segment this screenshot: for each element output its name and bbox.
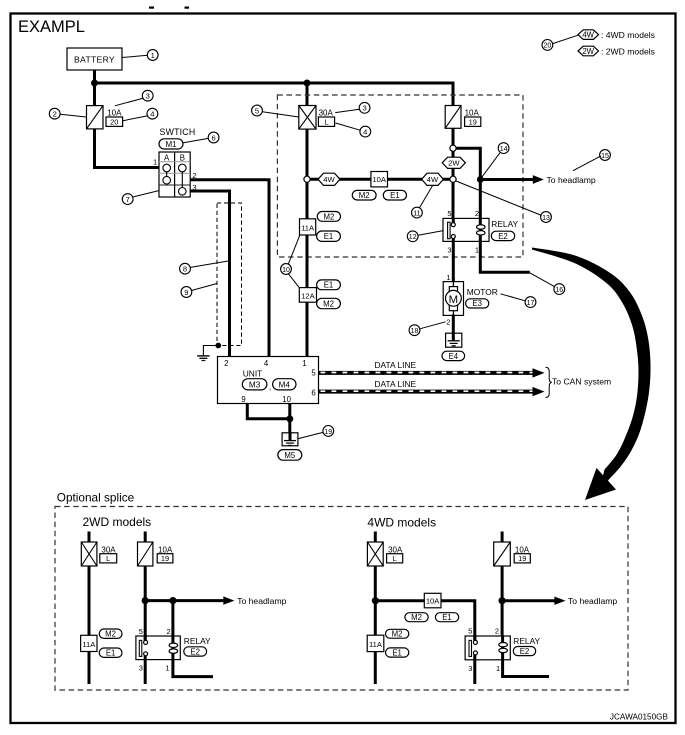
- wire main bus: [95, 83, 454, 107]
- value 30A / connector L: [318, 108, 334, 126]
- svg-text:To CAN system: To CAN system: [552, 377, 611, 387]
- relay K 2wd: [136, 627, 211, 673]
- motor M: [443, 282, 498, 316]
- svg-text:10A: 10A: [158, 545, 173, 554]
- svg-text:1: 1: [475, 246, 479, 255]
- fuse 4wd 10A: [494, 542, 511, 566]
- svg-text:Optional splice: Optional splice: [57, 491, 135, 505]
- wire F1 to switch pin1: [95, 129, 160, 168]
- callout 20: [542, 35, 578, 50]
- svg-text:RELAY: RELAY: [491, 219, 518, 229]
- legend 2W hexagon: [578, 46, 655, 56]
- svg-text:E1: E1: [392, 648, 402, 657]
- svg-text:M2: M2: [323, 212, 334, 221]
- svg-text:11A: 11A: [301, 223, 315, 232]
- svg-text:1: 1: [302, 359, 306, 368]
- connector 10A mid: [371, 172, 388, 187]
- callout 18: [409, 322, 446, 336]
- svg-text:4W: 4W: [323, 175, 335, 184]
- svg-text:10A: 10A: [465, 108, 480, 117]
- svg-text:UNIT: UNIT: [243, 368, 263, 378]
- shield around unit pin2 wire: [217, 203, 242, 346]
- svg-text:2: 2: [167, 627, 171, 636]
- svg-text:M2: M2: [392, 630, 403, 639]
- wire motor pin2 to ground: [452, 315, 455, 341]
- svg-text:8: 8: [183, 265, 187, 274]
- svg-text:To headlamp: To headlamp: [547, 175, 596, 185]
- value 10A / connector 20: [106, 108, 123, 126]
- callout 14: [482, 143, 509, 178]
- junction bus/30A branch: [304, 80, 311, 87]
- wire headlamp 4wd: [502, 596, 617, 606]
- svg-text:RELAY: RELAY: [513, 636, 540, 646]
- svg-text:10A: 10A: [107, 108, 122, 117]
- wire F2 down to unit pin1: [306, 129, 309, 176]
- tag E1: [317, 231, 341, 241]
- svg-text:A: A: [164, 153, 170, 162]
- svg-text:17: 17: [527, 300, 535, 307]
- svg-text:12: 12: [409, 234, 417, 241]
- callout 15: [573, 150, 610, 171]
- junction 2wd a: [142, 597, 149, 604]
- svg-text:5: 5: [255, 106, 259, 115]
- svg-text:6: 6: [311, 389, 315, 398]
- svg-text:9: 9: [241, 395, 245, 404]
- wire relay pin1 stub 4wd: [503, 660, 549, 677]
- svg-text:M: M: [449, 294, 459, 306]
- wire 2W to junction: [452, 168, 455, 176]
- dashed option box: [277, 95, 523, 257]
- wire battery to bus: [93, 70, 96, 107]
- svg-text:11: 11: [413, 211, 420, 218]
- fuse 4wd 30A: [367, 542, 383, 566]
- hexagon 4W a: [318, 173, 340, 185]
- svg-text:M2: M2: [359, 191, 370, 200]
- svg-text:: 4WD models: : 4WD models: [601, 30, 655, 40]
- svg-text:11A: 11A: [369, 640, 383, 649]
- wire shield to ground: [203, 346, 218, 356]
- tag M2: [352, 190, 376, 200]
- callout 13: [456, 181, 551, 222]
- svg-text:E2: E2: [520, 647, 530, 656]
- svg-text:18: 18: [411, 328, 419, 335]
- wire 4wd-right to relay pin2: [501, 566, 504, 636]
- connector 11A 4wd: [367, 635, 384, 651]
- svg-text:: 2WD models: : 2WD models: [601, 46, 655, 56]
- wire unit pin9/pin10 to ground: [247, 404, 289, 419]
- svg-text:1: 1: [165, 664, 169, 673]
- wire relay pin3 2wd: [144, 660, 147, 684]
- wire above fuse 4wd-right: [501, 532, 504, 543]
- svg-text:L: L: [324, 118, 328, 127]
- svg-text:19: 19: [518, 554, 526, 563]
- svg-text:DATA LINE: DATA LINE: [375, 360, 417, 370]
- wire relay pin3 4wd: [473, 660, 476, 684]
- svg-text:BATTERY: BATTERY: [74, 54, 115, 64]
- junction 2wd b: [169, 597, 176, 604]
- svg-text:To headlamp: To headlamp: [568, 596, 617, 606]
- wire branch to relay pin2: [456, 148, 480, 218]
- wire relay pin3 to motor: [452, 241, 455, 282]
- tag E1: [383, 190, 406, 200]
- svg-text:3: 3: [139, 664, 143, 673]
- svg-text:4: 4: [264, 359, 269, 368]
- tag M2: [317, 212, 340, 222]
- wire switch pin2 to unit pin4: [190, 180, 269, 357]
- svg-text:6: 6: [211, 133, 215, 142]
- svg-text:E2: E2: [498, 232, 508, 241]
- callout 10: [281, 235, 300, 288]
- svg-text:M5: M5: [284, 451, 295, 460]
- tag M2: [386, 629, 409, 638]
- wire junction b to relay pin2: [171, 601, 174, 636]
- svg-text:15: 15: [601, 153, 609, 160]
- svg-text:10A: 10A: [515, 545, 530, 554]
- svg-text:4: 4: [150, 110, 154, 119]
- svg-text:L: L: [393, 554, 397, 563]
- wire 2W segment: [452, 151, 455, 158]
- battery B1: [67, 48, 122, 70]
- hexagon 2W: [442, 157, 465, 168]
- legend 4W hexagon: [578, 30, 655, 40]
- svg-text:19: 19: [324, 429, 332, 436]
- switch SW1 label: [159, 127, 195, 149]
- junction headlamp: [477, 176, 484, 183]
- svg-text:3: 3: [362, 104, 366, 113]
- dashed splice box: [55, 507, 628, 691]
- svg-text:5: 5: [468, 627, 472, 636]
- ground E4: [442, 333, 465, 361]
- svg-text:5: 5: [139, 627, 143, 636]
- svg-text:4W: 4W: [582, 31, 594, 40]
- svg-text:2: 2: [495, 627, 499, 636]
- svg-text:M2: M2: [411, 613, 422, 622]
- fuse F3 (10A): [445, 106, 461, 129]
- junction open 4W/2W: [450, 176, 456, 182]
- svg-text:2: 2: [475, 209, 479, 218]
- callout 12: [407, 231, 443, 242]
- svg-text:30A: 30A: [388, 545, 403, 554]
- callout 4: [123, 108, 158, 120]
- svg-text:4W: 4W: [427, 175, 439, 184]
- svg-text:10A: 10A: [426, 597, 440, 606]
- connector 12A: [299, 288, 316, 303]
- callout 2: [49, 108, 86, 119]
- tag M2: [99, 629, 122, 639]
- wire headlamp 2wd: [145, 596, 286, 606]
- svg-text:E3: E3: [472, 299, 482, 308]
- fuse F1 (fusible link 10A): [87, 106, 104, 129]
- wire junction to relay pin5: [452, 182, 455, 218]
- svg-text:JCAWA0150GB: JCAWA0150GB: [610, 713, 669, 722]
- junction 4wd a: [372, 597, 379, 604]
- data line 1: [319, 360, 545, 378]
- wire above fuse 2wd-right: [144, 532, 147, 543]
- svg-text:2W: 2W: [582, 47, 594, 56]
- ground M5 box: [278, 433, 302, 460]
- svg-text:,: ,: [269, 382, 271, 391]
- svg-text:19: 19: [161, 554, 169, 563]
- svg-text:E1: E1: [442, 613, 452, 622]
- junction pin9/pin10: [286, 415, 293, 422]
- svg-text:12A: 12A: [301, 292, 315, 301]
- svg-text:7: 7: [126, 195, 130, 204]
- callout 9: [181, 284, 217, 298]
- svg-text:M4: M4: [279, 381, 291, 390]
- wire 2wd-right to relay pin5: [144, 566, 147, 641]
- svg-text:MOTOR: MOTOR: [467, 287, 498, 297]
- callout 4b: [336, 123, 371, 137]
- fuse F2 (fusible link 30A): [299, 106, 316, 130]
- ground G1: [197, 356, 209, 361]
- wire switch pin3 to unit pin2: [190, 191, 229, 357]
- svg-text:4: 4: [363, 128, 367, 137]
- wire relay pin1 stub: [480, 241, 530, 272]
- connector 11A: [300, 219, 316, 235]
- svg-text:E2: E2: [190, 647, 200, 656]
- callout 16: [530, 273, 565, 295]
- value 10A / connector 19: [465, 108, 481, 126]
- svg-text:2: 2: [53, 110, 57, 119]
- svg-text:E1: E1: [106, 649, 116, 658]
- svg-text:M2: M2: [105, 630, 116, 639]
- junction shield/ground: [215, 343, 221, 349]
- connector 10A 4wd: [424, 593, 441, 608]
- svg-text:1: 1: [153, 158, 157, 167]
- tag M2: [405, 613, 428, 622]
- wire bus to fuse F2: [306, 83, 309, 107]
- tag E1: [99, 648, 122, 658]
- svg-text:14: 14: [500, 146, 508, 153]
- svg-text:10: 10: [282, 395, 291, 404]
- wire headlamp arrow: [480, 175, 596, 185]
- callout 7: [122, 191, 158, 205]
- junction 4wd b: [499, 597, 506, 604]
- svg-text:3: 3: [447, 246, 451, 255]
- svg-text:2WD models: 2WD models: [83, 515, 152, 529]
- svg-text:1: 1: [496, 664, 500, 673]
- svg-text:E4: E4: [449, 352, 459, 361]
- wire splice horiz to relay pin5: [375, 601, 474, 641]
- callout 17: [501, 294, 536, 308]
- wire above fuse 2wd-left: [88, 532, 91, 543]
- svg-text:20: 20: [544, 43, 552, 50]
- wire F3 down: [452, 128, 455, 145]
- svg-text:M2: M2: [323, 300, 334, 309]
- svg-text:30A: 30A: [319, 108, 334, 117]
- svg-text:To headlamp: To headlamp: [237, 596, 286, 606]
- fuse 2wd 30A: [81, 542, 97, 566]
- relay K 4wd: [465, 627, 540, 673]
- svg-text:EXAMPL: EXAMPL: [18, 18, 85, 36]
- svg-text:E1: E1: [324, 232, 334, 241]
- svg-text:1: 1: [446, 273, 450, 282]
- tag E1: [386, 648, 409, 658]
- svg-text:5: 5: [311, 369, 316, 378]
- svg-text:3: 3: [146, 92, 150, 101]
- fuse 2wd 10A: [138, 542, 153, 566]
- junction open 2W split: [450, 145, 456, 151]
- svg-text:2: 2: [446, 317, 450, 326]
- svg-text:20: 20: [110, 118, 118, 127]
- svg-text:13: 13: [542, 215, 550, 222]
- tag E1: [317, 280, 341, 290]
- svg-text:L: L: [106, 554, 110, 563]
- data line 2: [319, 379, 545, 396]
- svg-text:B: B: [180, 153, 185, 162]
- callout 6: [184, 132, 220, 143]
- switch SW1 body: [153, 152, 197, 197]
- callout 1: [122, 50, 158, 61]
- svg-text:2: 2: [224, 359, 228, 368]
- svg-text:10A: 10A: [372, 175, 386, 184]
- unit U1: [218, 357, 319, 404]
- junction battery/bus: [91, 80, 98, 87]
- hexagon 4W b: [422, 173, 444, 185]
- tag E1: [435, 613, 458, 622]
- callout 19: [298, 426, 333, 439]
- wire above fuse 4wd-left: [374, 532, 377, 543]
- svg-text:E1: E1: [390, 191, 400, 200]
- svg-text:DATA LINE: DATA LINE: [375, 379, 417, 389]
- big curved arrow: [532, 248, 651, 501]
- svg-text:11A: 11A: [82, 640, 96, 649]
- svg-text:30A: 30A: [101, 545, 116, 554]
- callout 3: [115, 90, 153, 106]
- junction open 4W split: [304, 176, 310, 182]
- svg-text:4WD models: 4WD models: [367, 516, 436, 530]
- wire relay pin1 stub 2wd: [173, 660, 213, 677]
- wire 4wd-left down: [374, 566, 377, 684]
- svg-text:9: 9: [184, 288, 188, 297]
- svg-text:16: 16: [555, 287, 563, 294]
- svg-text:2W: 2W: [448, 159, 460, 168]
- svg-text:E1: E1: [324, 281, 334, 290]
- svg-text:10: 10: [282, 267, 290, 274]
- svg-text:5: 5: [447, 209, 451, 218]
- connector 11A 2wd: [81, 635, 97, 651]
- svg-text:1: 1: [151, 51, 155, 60]
- relay K1: [443, 209, 519, 254]
- svg-text:SWTICH: SWTICH: [160, 127, 196, 137]
- svg-text:M3: M3: [249, 381, 261, 390]
- svg-text:M1: M1: [165, 140, 177, 149]
- svg-text:3: 3: [468, 664, 472, 673]
- callout 8: [180, 261, 229, 274]
- callout 5: [252, 105, 299, 117]
- svg-text:19: 19: [469, 118, 477, 127]
- wire 2wd-left down: [88, 566, 91, 684]
- svg-text:RELAY: RELAY: [184, 636, 211, 646]
- callout 3b: [335, 102, 370, 113]
- brace CAN: [546, 367, 552, 397]
- wire 4W line: [310, 178, 451, 181]
- callout 11: [412, 186, 433, 218]
- tag M2: [317, 298, 341, 308]
